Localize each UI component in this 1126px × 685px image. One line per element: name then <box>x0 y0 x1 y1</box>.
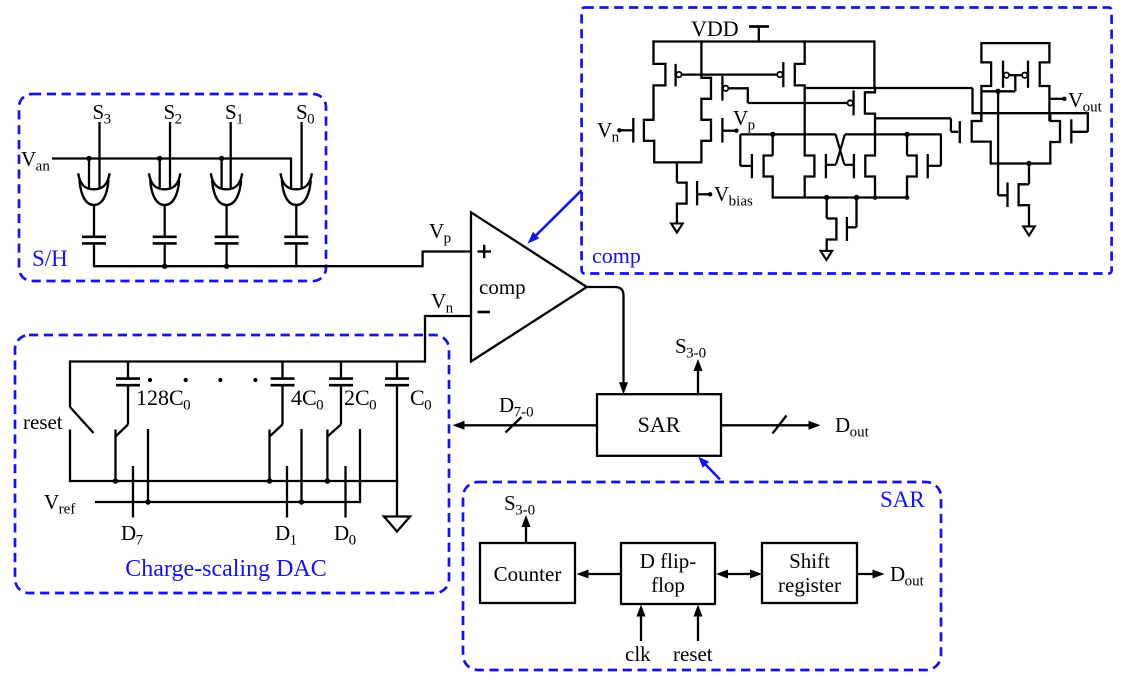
svg-text:0: 0 <box>316 398 324 414</box>
label 4C0 <box>291 385 324 414</box>
wire C0 bottom lead <box>396 385 398 516</box>
bus slash Dout <box>773 416 787 434</box>
transistor M2 gate <box>722 76 728 101</box>
capacitor 4C0 <box>271 362 295 386</box>
wire D7 control line <box>132 466 134 518</box>
label reset <box>23 410 63 434</box>
label Vn (comparator input) <box>431 289 454 317</box>
capacitor CS0 <box>284 237 308 244</box>
SAR detail dashed border <box>463 482 941 670</box>
node Van-S3 <box>86 156 91 161</box>
Counter box <box>480 543 575 603</box>
transistor M8 gate <box>751 154 753 178</box>
wire reset bottom lead <box>69 430 71 483</box>
D flip-flop box <box>621 543 715 604</box>
svg-text:C: C <box>410 385 425 410</box>
transistor M2 PMOS channel <box>701 40 711 121</box>
Shift register box <box>762 543 857 603</box>
label S1 <box>225 100 244 128</box>
capacitor CS1 <box>215 237 239 244</box>
svg-text:S: S <box>504 491 516 515</box>
node rail-C2 <box>162 264 167 269</box>
S/H block dashed border <box>19 94 326 281</box>
wire switch pole 128C0 <box>114 430 116 483</box>
svg-text:SAR: SAR <box>880 487 925 512</box>
transistor M13 gate <box>1003 61 1009 88</box>
wire sampling stub <box>159 159 161 189</box>
node pole-128C0 <box>113 478 118 483</box>
svg-text:n: n <box>612 130 620 146</box>
wire node A horizontal <box>805 87 973 89</box>
wire S3-0 output of SAR <box>694 359 703 394</box>
node 4C pole <box>267 478 272 483</box>
wire throw contact 128C0 to Vref <box>147 429 149 503</box>
transistor M4 gate <box>722 118 738 143</box>
arrow DFF to Counter <box>577 570 622 579</box>
label 2C0 <box>344 385 377 414</box>
wire output source rail <box>991 162 1051 164</box>
capacitor CS3 <box>82 237 106 244</box>
svg-text:3-0: 3-0 <box>515 503 535 519</box>
svg-text:comp: comp <box>479 275 526 299</box>
label S0 <box>296 100 315 128</box>
svg-text:VDD: VDD <box>691 16 739 41</box>
wire Vout lead <box>1049 97 1066 101</box>
svg-text:reset: reset <box>23 410 63 434</box>
svg-text:V: V <box>714 182 729 206</box>
sampling switch S0 (XOR-style gate) <box>281 173 312 205</box>
transistor M5 tail <box>677 161 687 223</box>
switch arm under 2C0 <box>327 425 341 437</box>
latch cross-couple X <box>827 134 854 164</box>
svg-text:V: V <box>44 490 59 514</box>
wire switch S3 output <box>93 205 95 238</box>
svg-text:D: D <box>835 413 850 437</box>
transistor M1 PMOS channel <box>654 40 666 121</box>
svg-text:comp: comp <box>592 243 641 268</box>
node rail3-tail <box>1026 161 1031 166</box>
svg-text:an: an <box>36 159 51 175</box>
label VDD <box>691 16 739 41</box>
Charge-scaling DAC label <box>125 556 327 582</box>
svg-text:128C: 128C <box>136 385 184 410</box>
svg-text:V: V <box>1068 88 1083 112</box>
VDD supply symbol <box>749 27 769 43</box>
svg-text:Counter: Counter <box>494 562 562 586</box>
wire H5 latch rail right <box>845 133 942 135</box>
label reset (SAR detail) <box>673 642 713 666</box>
node rail-C1 <box>224 264 229 269</box>
SAR register box <box>597 394 721 456</box>
svg-text:0: 0 <box>349 533 357 549</box>
transistor M15 gate <box>959 121 961 143</box>
transistor M8 channel <box>764 133 773 198</box>
transistor M7 PMOS channel <box>865 88 875 157</box>
wire cap 2C0 bottom lead <box>340 385 342 424</box>
S/H block label <box>32 246 68 271</box>
label D1 <box>275 521 297 549</box>
svg-text:V: V <box>597 118 612 142</box>
arrow S3-0 from Counter <box>522 515 531 543</box>
label Dout (SAR detail) <box>890 562 925 590</box>
svg-text:out: out <box>905 574 925 590</box>
svg-text:3-0: 3-0 <box>686 346 706 362</box>
svg-text:0: 0 <box>369 398 377 414</box>
node rail2-M11 <box>905 195 910 200</box>
label Dout (right) <box>835 413 870 441</box>
wire VDD rail <box>652 40 874 42</box>
label Vbias <box>714 182 753 210</box>
svg-text:7: 7 <box>136 533 144 549</box>
node rail2-M10 <box>873 195 878 200</box>
wire throw contact 2C0 to Vref <box>359 429 361 503</box>
wire Vout node rail <box>973 112 1088 114</box>
node 2C pole <box>325 478 330 483</box>
wire cap S1 bottom lead <box>225 243 227 267</box>
transistor M5 gate <box>697 181 712 205</box>
transistor M11 channel <box>907 133 917 198</box>
label Vp (comparator input) <box>429 219 451 247</box>
ground M5 <box>671 224 683 233</box>
svg-text:V: V <box>429 219 444 243</box>
wire Van rail <box>52 157 291 188</box>
svg-text:p: p <box>444 231 452 247</box>
wire H4 to NL gate <box>875 118 958 132</box>
wire comparator output <box>587 287 628 394</box>
label S2 <box>164 100 183 128</box>
svg-text:D: D <box>275 521 290 545</box>
transistor M10 gate <box>853 154 855 178</box>
wire Vref rail <box>95 501 360 503</box>
wire output stage rail <box>981 42 1049 44</box>
node rail2-tail <box>824 195 829 200</box>
transistor M9 channel <box>805 156 815 199</box>
svg-text:D: D <box>499 393 514 417</box>
transistor M13 PMOS channel <box>981 42 991 121</box>
wire Vn input <box>424 316 471 362</box>
transistor M14 gate <box>1022 61 1028 88</box>
node H5-MD drain <box>904 132 909 137</box>
bus D7-0 to DAC <box>453 421 598 430</box>
transistor M10 channel <box>865 156 875 199</box>
capacitor CS2 <box>153 237 177 244</box>
transistor M12 gate <box>847 196 857 241</box>
wire cap 4C0 bottom lead <box>281 385 283 424</box>
wire gate link drop <box>981 75 1015 91</box>
comp detail dashed border <box>582 8 1112 274</box>
arrow Shift to Dout <box>857 570 885 579</box>
svg-text:V: V <box>431 289 446 313</box>
label Vref <box>44 490 75 518</box>
wire VDD rail right drop <box>873 40 875 89</box>
svg-text:p: p <box>748 118 756 134</box>
label Vp (comp detail) <box>733 106 755 134</box>
sampling switch S2 (XOR-style gate) <box>149 173 180 205</box>
wire S3 control <box>98 122 100 188</box>
svg-text:7-0: 7-0 <box>514 405 534 421</box>
Shift register label <box>778 549 841 597</box>
wire gate link <box>1009 74 1022 76</box>
SAR box label <box>638 412 681 437</box>
wire S/H bottom rail <box>94 252 471 268</box>
node rail2-gate tie <box>854 195 859 200</box>
svg-text:bias: bias <box>729 194 753 210</box>
label D7 <box>121 521 144 549</box>
wire sampling stub <box>220 159 222 189</box>
transistor M16 NMOS channel <box>1050 112 1060 165</box>
label S3-0 (SAR detail) <box>504 491 535 519</box>
svg-text:ref: ref <box>59 502 76 518</box>
svg-text:S: S <box>93 100 105 124</box>
comparator label comp <box>479 275 526 299</box>
svg-text:D: D <box>334 521 349 545</box>
capacitor C0 element <box>385 362 409 386</box>
svg-text:2C: 2C <box>344 385 370 410</box>
label D0 <box>334 521 356 549</box>
label C0 <box>410 385 432 414</box>
comparator plus sign <box>478 245 492 258</box>
wire M1-M2 gate lead <box>682 73 778 75</box>
wire switch pole 4C0 <box>268 430 270 483</box>
blue callout arrow to SAR detail <box>698 457 720 480</box>
svg-text:S: S <box>225 100 237 124</box>
wire switch pole 2C0 <box>326 430 328 483</box>
ellipsis dots <box>148 378 258 382</box>
transistor M17 gate <box>1006 183 1008 208</box>
svg-text:clk: clk <box>625 642 651 666</box>
svg-text:flop: flop <box>651 573 685 597</box>
double arrow DFF-Shift <box>716 570 762 579</box>
wire reset top lead <box>69 360 71 407</box>
node Van-S2 <box>157 156 162 161</box>
label D7-0 <box>499 393 534 421</box>
label 128C0 <box>136 385 191 414</box>
capacitor 2C0 <box>329 362 353 386</box>
svg-text:n: n <box>446 301 454 317</box>
arrow reset input <box>694 605 703 642</box>
wire S1 control <box>230 122 232 188</box>
transistor M16 gate <box>1071 112 1088 143</box>
label Van <box>21 147 50 175</box>
node pole-4C0 <box>267 478 272 483</box>
wire cap S2 bottom lead <box>164 243 166 267</box>
svg-text:0: 0 <box>183 398 191 414</box>
node pole-2C0 <box>325 478 330 483</box>
wire M2 gate route <box>728 87 847 103</box>
node Vref-128 <box>145 499 150 504</box>
sampling switch S1 (XOR-style gate) <box>211 173 242 205</box>
wire switch S0 output <box>295 205 297 238</box>
svg-text:1: 1 <box>236 112 244 128</box>
transistor M11 gate <box>927 154 929 178</box>
node H5-MA drain <box>770 132 775 137</box>
wire throw contact 4C0 to Vref <box>300 429 302 503</box>
svg-text:2: 2 <box>175 112 183 128</box>
blue callout arrow to comp detail <box>528 190 582 243</box>
svg-text:S: S <box>675 334 687 358</box>
svg-text:D: D <box>890 562 905 586</box>
arrow clk input <box>637 605 646 642</box>
switch arm under 128C0 <box>116 425 129 437</box>
label clk <box>625 642 651 666</box>
node 128C pole <box>113 478 118 483</box>
transistor M14 PMOS channel <box>1040 42 1050 121</box>
bus Dout from SAR <box>721 421 821 430</box>
transistor M3 NMOS Vn channel <box>644 120 654 164</box>
svg-text:S/H: S/H <box>32 246 68 271</box>
wire DAC top plate rail <box>70 360 426 362</box>
wire D1 control line <box>286 466 288 518</box>
sampling switch S3 (XOR-style gate) <box>78 173 109 205</box>
transistor M17 tail <box>1019 162 1029 226</box>
label Vn (comp detail) <box>597 118 620 146</box>
wire DAC switch common rail <box>70 480 398 482</box>
wire D0 control line <box>344 466 346 518</box>
node Van-S1 <box>219 156 224 161</box>
wire H5 right drop to MD gate <box>928 134 941 165</box>
wire diff pair source rail <box>654 161 701 163</box>
label S3-0 (top) <box>675 334 706 362</box>
wire node A drop <box>971 88 973 114</box>
svg-text:register: register <box>778 573 841 597</box>
label S3 <box>93 100 112 128</box>
svg-text:4C: 4C <box>291 385 317 410</box>
bus slash D7-0 <box>506 417 522 433</box>
svg-text:out: out <box>850 425 870 441</box>
svg-text:3: 3 <box>104 112 112 128</box>
wire tail gate feed <box>998 91 1007 195</box>
wire cap S3 bottom lead <box>93 243 95 267</box>
comparator minus sign <box>478 311 491 314</box>
svg-text:S: S <box>296 100 308 124</box>
op-amp comparator triangle <box>471 212 587 361</box>
capacitor 128C0 <box>116 362 140 386</box>
wire H5 left drop to MA gate <box>740 134 752 166</box>
switch arm under 4C0 <box>270 425 283 437</box>
svg-text:Charge-scaling DAC: Charge-scaling DAC <box>125 556 327 582</box>
wire latch source rail <box>773 196 907 198</box>
svg-text:0: 0 <box>307 112 315 128</box>
wire cap S0 bottom lead <box>295 243 297 267</box>
svg-text:V: V <box>733 106 748 130</box>
transistor M9 gate <box>825 154 827 178</box>
D flip-flop label <box>640 549 697 597</box>
label Vout <box>1068 88 1103 116</box>
svg-text:V: V <box>21 147 36 171</box>
comp detail label <box>592 243 641 268</box>
svg-text:reset: reset <box>673 642 713 666</box>
svg-text:Shift: Shift <box>789 549 830 573</box>
switch reset arm <box>70 407 94 433</box>
transistor M4 NMOS Vp channel <box>701 120 711 164</box>
ground M17 <box>1023 226 1035 235</box>
svg-text:1: 1 <box>290 533 298 549</box>
ground M12 <box>821 251 833 260</box>
node gate link <box>995 89 1000 94</box>
wire switch S2 output <box>164 205 166 238</box>
transistor M3 gate <box>617 118 633 143</box>
Charge-scaling DAC dashed border <box>15 335 449 593</box>
svg-text:SAR: SAR <box>638 412 681 437</box>
wire H5 latch rail left <box>740 133 835 135</box>
wire S0 control <box>300 122 302 188</box>
wire cap 128C0 bottom lead <box>127 385 129 424</box>
transistor M1 gate <box>676 64 682 87</box>
svg-text:D flip-: D flip- <box>640 549 697 573</box>
wire switch S1 output <box>225 205 227 238</box>
SAR detail label <box>880 487 925 512</box>
transistor M12 tail <box>827 196 837 251</box>
transistor M6 PMOS channel <box>795 40 805 156</box>
transistor M7 gate <box>848 91 854 116</box>
Counter label <box>494 562 562 586</box>
node Vref-4C <box>299 499 304 504</box>
svg-text:S: S <box>164 100 176 124</box>
transistor M15 NMOS channel <box>972 112 991 165</box>
wire sampling stub <box>88 159 90 189</box>
svg-text:0: 0 <box>424 398 432 414</box>
svg-text:D: D <box>121 521 136 545</box>
transistor M6 gate <box>777 62 783 87</box>
wire S2 control <box>169 122 171 188</box>
ground symbol DAC <box>384 517 410 532</box>
